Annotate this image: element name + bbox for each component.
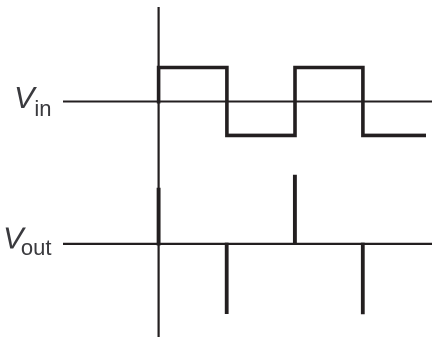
Vout impulse 1 (positive, at t=0)	[157, 188, 161, 246]
Vout impulse 4 (negative)	[361, 243, 365, 315]
label Vin	[14, 80, 52, 121]
time axis	[158, 7, 160, 337]
Vin square wave	[159, 68, 426, 136]
Vout impulse 2 (negative)	[225, 243, 229, 315]
svg-text:out: out	[21, 235, 52, 260]
Vin baseline wire	[63, 100, 432, 102]
Vout impulse 3 (positive)	[293, 175, 297, 245]
label Vout	[3, 220, 51, 260]
svg-text:in: in	[34, 96, 51, 121]
Vout baseline wire	[63, 243, 432, 245]
